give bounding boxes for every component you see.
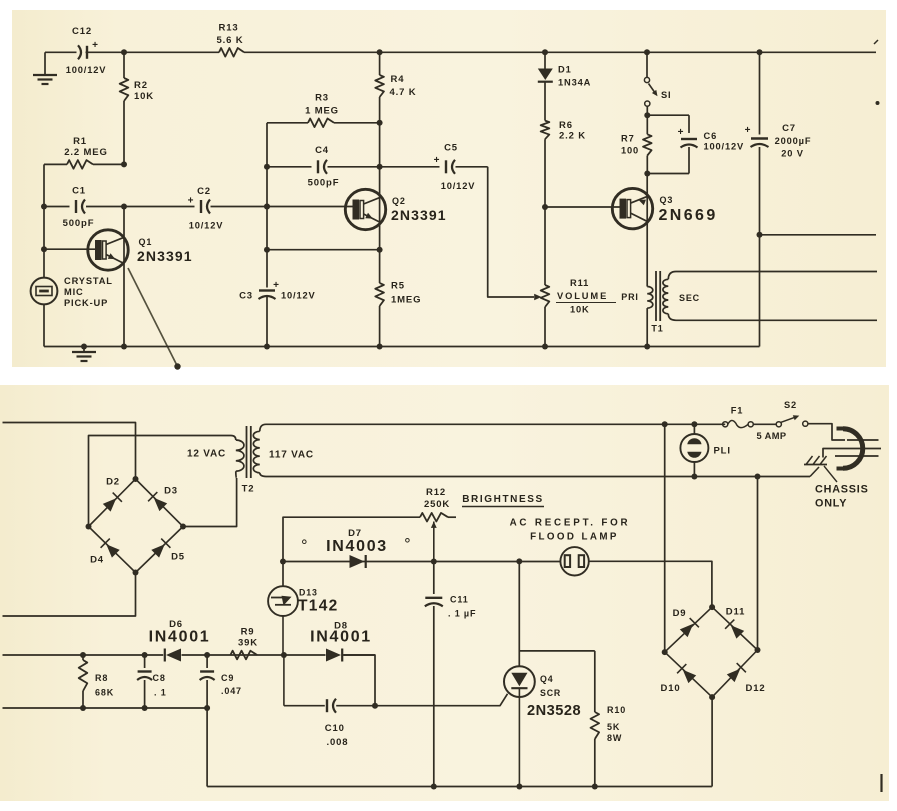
svg-text:+: + <box>188 196 195 207</box>
svg-text:SI: SI <box>661 90 671 100</box>
svg-text:C10: C10 <box>325 723 345 734</box>
plug blade top <box>847 439 879 441</box>
node R2 top <box>121 49 127 55</box>
transistor Q2 <box>345 189 446 229</box>
capacitor C6 <box>644 127 744 177</box>
node R12 wiper row <box>431 559 437 565</box>
svg-text:10/12V: 10/12V <box>281 291 316 301</box>
node R9 right junction <box>281 652 287 658</box>
trigger diode D13 <box>268 562 338 656</box>
svg-text:Q2: Q2 <box>392 196 406 206</box>
svg-text:D10: D10 <box>661 683 681 694</box>
node R3 right <box>377 120 383 126</box>
transformer T1 core <box>656 271 660 321</box>
svg-text:R9: R9 <box>241 627 255 638</box>
svg-text:5K: 5K <box>607 722 620 732</box>
wire main row <box>3 654 376 656</box>
wire 117VAC return rail <box>266 476 810 478</box>
svg-text:500pF: 500pF <box>63 218 95 229</box>
node C4 left <box>264 164 270 170</box>
svg-text:ONLY: ONLY <box>815 498 847 510</box>
transistor Q1 <box>88 230 193 270</box>
svg-text:2N669: 2N669 <box>659 207 718 224</box>
svg-text:R1: R1 <box>73 136 87 147</box>
svg-text:C2: C2 <box>197 186 211 197</box>
svg-text:T142: T142 <box>298 598 339 615</box>
svg-text:C3: C3 <box>239 291 253 302</box>
capacitor C11 <box>425 562 476 790</box>
resistor R3 <box>267 93 380 128</box>
svg-text:D13: D13 <box>299 588 318 598</box>
capacitor C2 <box>124 186 267 231</box>
svg-text:500pF: 500pF <box>308 178 340 189</box>
wire S1 to R7/C6 <box>644 106 689 133</box>
svg-text:VOLUME: VOLUME <box>557 291 608 301</box>
plug blade bottom <box>835 455 879 457</box>
capacitor C5 <box>380 143 488 192</box>
transformer T1 primary <box>621 287 653 347</box>
svg-text:C11: C11 <box>450 595 469 605</box>
bridge D2-D5 frame <box>89 479 184 573</box>
neon lamp PL1 <box>680 421 730 479</box>
svg-text:R5: R5 <box>391 281 405 292</box>
node Q2 base wire left <box>264 204 270 210</box>
transformer T2 secondary <box>242 424 314 494</box>
wire left column lower <box>43 304 45 347</box>
svg-text:FLOOD LAMP: FLOOD LAMP <box>530 532 619 543</box>
wire phase-shift row <box>283 561 561 563</box>
node bridge2 right top <box>755 474 761 480</box>
svg-text:R10: R10 <box>607 705 626 715</box>
potentiometer R11 VOLUME <box>541 207 616 347</box>
node bridge2 top <box>709 604 715 610</box>
svg-text:10/12V: 10/12V <box>441 181 476 191</box>
svg-text:R2: R2 <box>134 80 148 91</box>
svg-text:S2: S2 <box>784 400 797 410</box>
svg-text:IN4001: IN4001 <box>149 629 211 646</box>
wire bridge2 right column <box>757 477 759 651</box>
scan speck slash <box>874 40 878 44</box>
chassis ground <box>804 456 869 510</box>
diode D8 <box>310 621 372 662</box>
wire bridge1 plus rail <box>3 423 136 480</box>
diode D4 <box>90 539 120 566</box>
svg-text:C6: C6 <box>704 131 718 141</box>
svg-text:.047: .047 <box>221 686 242 696</box>
svg-text:1N34A: 1N34A <box>558 78 591 88</box>
svg-text:CRYSTAL: CRYSTAL <box>64 276 113 286</box>
svg-text:C1: C1 <box>72 186 86 197</box>
svg-text:4.7 K: 4.7 K <box>390 87 417 98</box>
pointer line from Q1 <box>128 268 181 370</box>
transistor Q3 <box>612 173 717 229</box>
speck near D7 left <box>303 540 307 544</box>
svg-text:SEC: SEC <box>679 293 700 303</box>
svg-text:C5: C5 <box>444 143 458 154</box>
wire R3 to C4 column <box>266 123 268 250</box>
svg-text:F1: F1 <box>731 406 744 416</box>
capacitor C7 <box>745 49 812 346</box>
paper background top section <box>12 10 886 367</box>
wire left input column <box>43 164 45 278</box>
svg-text:+: + <box>273 280 280 291</box>
diode D7 <box>326 528 388 568</box>
wire R12 feed <box>283 517 420 561</box>
node C1 left <box>41 204 47 210</box>
wire bridge1 minus rail <box>3 573 136 617</box>
node bridge1 right <box>180 524 186 530</box>
svg-text:. 1 µF: . 1 µF <box>448 609 476 619</box>
wire Q3 to T1 <box>646 224 648 287</box>
diode D11 <box>725 607 745 639</box>
node R5 bottom <box>377 344 383 350</box>
wire Q1 collector-emitter column <box>123 207 125 347</box>
svg-text:R8: R8 <box>95 673 108 683</box>
svg-text:R13: R13 <box>219 23 239 34</box>
svg-text:T2: T2 <box>242 484 255 495</box>
transformer T2 core <box>247 426 251 478</box>
node bridge1 left <box>86 524 92 530</box>
svg-text:2N3391: 2N3391 <box>137 248 193 264</box>
node emitter return right <box>377 247 383 253</box>
wire F1 to S2 <box>753 423 776 425</box>
svg-text:D12: D12 <box>746 683 766 694</box>
ground at bottom rail <box>72 344 96 362</box>
resistor R1 <box>44 136 124 169</box>
node bridge2 left <box>662 649 668 655</box>
wire Q3 base <box>545 206 620 208</box>
node C3 bottom <box>264 344 270 350</box>
svg-text:5.6 K: 5.6 K <box>217 35 244 46</box>
transformer T1 secondary <box>651 272 700 334</box>
wire bottom rail 2 <box>207 786 711 788</box>
svg-text:12 VAC: 12 VAC <box>187 449 226 460</box>
svg-text:Q4: Q4 <box>540 674 553 684</box>
node R10 bottom <box>592 784 598 790</box>
diode D10 <box>661 664 697 694</box>
diode D9 <box>673 608 699 637</box>
svg-text:D9: D9 <box>673 608 687 619</box>
wire Q2 column <box>379 123 381 283</box>
svg-text:R3: R3 <box>315 93 329 104</box>
svg-text:5 AMP: 5 AMP <box>756 431 786 441</box>
resistor R13 <box>217 23 244 57</box>
wire SEC bottom out <box>676 319 877 321</box>
ground at C12 <box>33 52 57 84</box>
node Q4 anode tap <box>516 558 522 564</box>
wire C5 to volume wiper <box>488 167 542 300</box>
resistor R6 <box>541 120 586 207</box>
resistor R8 <box>79 652 114 711</box>
scan artifact bar <box>880 774 882 792</box>
node row left <box>280 559 286 565</box>
node T1 primary bottom <box>644 344 650 350</box>
svg-text:PICK-UP: PICK-UP <box>64 298 108 308</box>
svg-text:C9: C9 <box>221 673 234 683</box>
capacitor C3 <box>239 250 316 347</box>
bridge D9-D12 frame <box>665 607 758 697</box>
wire Q2 base <box>267 206 353 208</box>
wire bridge2 left column <box>664 424 666 652</box>
diode D2 <box>103 477 122 512</box>
node Q1 base wire <box>41 246 47 252</box>
node bridge2 right <box>755 647 761 653</box>
wire S2 to plug <box>808 424 845 440</box>
svg-text:100/12V: 100/12V <box>704 142 745 152</box>
svg-text:8W: 8W <box>607 733 622 743</box>
svg-text:C4: C4 <box>315 145 329 156</box>
node Q4 cathode bottom <box>516 784 522 790</box>
diode D5 <box>151 539 185 563</box>
svg-text:10K: 10K <box>570 305 590 315</box>
capacitor C12 <box>66 26 107 75</box>
svg-text:SCR: SCR <box>540 688 561 698</box>
wire bridge2 bottom column <box>710 697 713 786</box>
resistor R9 <box>230 627 258 660</box>
svg-text:39K: 39K <box>238 638 258 649</box>
svg-text:C8: C8 <box>153 673 166 683</box>
svg-text:D3: D3 <box>164 486 178 497</box>
svg-text:C7: C7 <box>782 123 796 134</box>
wire bottom rail <box>44 346 760 348</box>
wire SCR gate <box>375 694 508 706</box>
svg-text:R6: R6 <box>559 120 573 131</box>
resistor R5 <box>375 281 421 347</box>
potentiometer R12 <box>420 487 456 562</box>
svg-text:R4: R4 <box>391 74 405 85</box>
wire D8 out <box>343 655 376 706</box>
diode D12 <box>727 663 766 694</box>
SCR Q4 <box>504 666 581 786</box>
fuse F1 <box>723 406 787 442</box>
wire Q1 base <box>44 248 95 250</box>
node bridge1 top <box>133 476 139 482</box>
node D8 row to C10 <box>372 703 378 709</box>
paper background bottom section <box>0 385 889 801</box>
svg-text:CHASSIS: CHASSIS <box>815 484 869 496</box>
svg-text:68K: 68K <box>95 688 114 698</box>
switch S1 <box>644 49 671 106</box>
wire bridge1 right node to T2 <box>183 478 237 527</box>
wire C7 tap out <box>760 234 877 236</box>
switch S2 <box>776 400 808 427</box>
node D1 top <box>542 49 548 55</box>
svg-text:.008: .008 <box>327 737 349 748</box>
capacitor C10 <box>325 699 349 748</box>
svg-text:D5: D5 <box>171 552 185 563</box>
node bridge2 bottom <box>709 694 715 700</box>
svg-text:+: + <box>678 127 685 138</box>
resistor R2 <box>120 52 154 164</box>
node emitter return left <box>264 247 270 253</box>
AC receptacle <box>510 518 631 576</box>
wire receptacle to bridge2 top <box>589 561 712 607</box>
node C7 tap <box>757 232 763 238</box>
svg-text:2000µF: 2000µF <box>775 136 812 146</box>
node C4 right <box>377 164 383 170</box>
node R11 bottom <box>542 344 548 350</box>
svg-text:MIC: MIC <box>64 287 84 297</box>
svg-text:AC RECEPT. FOR: AC RECEPT. FOR <box>510 518 631 529</box>
svg-text:PRI: PRI <box>621 292 639 302</box>
wire Q4 anode <box>518 561 520 666</box>
svg-text:IN4001: IN4001 <box>310 629 372 646</box>
wire bridge1 left node to T2 <box>89 436 232 527</box>
wire Q4 loop to R10 <box>519 650 595 652</box>
AC plug body <box>837 429 863 469</box>
svg-text:D1: D1 <box>558 65 572 75</box>
svg-text:20 V: 20 V <box>781 149 804 159</box>
svg-text:2N3528: 2N3528 <box>527 703 581 719</box>
svg-text:10/12V: 10/12V <box>189 221 224 231</box>
wire Q2 emitter return <box>267 249 380 251</box>
node C2 right <box>264 204 270 210</box>
svg-text:2.2 MEG: 2.2 MEG <box>64 147 107 158</box>
label BRIGHTNESS <box>462 494 544 507</box>
diode D1 <box>538 52 591 120</box>
capacitor C9 <box>200 655 242 711</box>
svg-text:250K: 250K <box>424 499 450 510</box>
svg-text:+: + <box>745 125 752 136</box>
svg-text:D4: D4 <box>90 555 104 566</box>
crystal mic pick-up <box>31 276 113 308</box>
speck near D7 right <box>406 539 410 543</box>
node bridge1 bottom <box>133 570 139 576</box>
svg-text:Q3: Q3 <box>660 195 674 205</box>
transformer T2 primary <box>187 436 244 479</box>
resistor R10 <box>591 651 627 787</box>
scan speck dot <box>876 101 880 105</box>
wire lower-left row <box>3 707 208 709</box>
svg-text:1 MEG: 1 MEG <box>305 106 339 117</box>
wire 117VAC hot rail <box>266 423 725 425</box>
capacitor C1 <box>44 186 124 230</box>
svg-text:Q1: Q1 <box>139 237 153 247</box>
svg-text:117 VAC: 117 VAC <box>269 450 314 461</box>
wire C10 row <box>284 655 375 706</box>
svg-text:R11: R11 <box>570 278 589 288</box>
node R4 top <box>377 49 383 55</box>
node C1 right <box>121 204 127 210</box>
svg-text:D2: D2 <box>106 477 120 488</box>
capacitor C4 <box>267 145 380 189</box>
svg-text:BRIGHTNESS: BRIGHTNESS <box>462 494 544 505</box>
svg-text:T1: T1 <box>651 324 663 334</box>
capacitor C8 <box>137 652 166 711</box>
svg-text:100: 100 <box>621 146 639 156</box>
wire top supply rail <box>45 51 876 53</box>
svg-text:R7: R7 <box>621 134 635 144</box>
wire C9 column to bottom rail <box>206 708 208 787</box>
node Q1 emitter bottom <box>121 344 127 350</box>
diode D6 <box>149 619 211 662</box>
svg-text:100/12V: 100/12V <box>66 65 107 75</box>
svg-text:D11: D11 <box>726 607 745 618</box>
plug blade middle <box>823 449 881 458</box>
node D6/C9 junction <box>204 652 210 658</box>
svg-text:C12: C12 <box>72 26 92 37</box>
svg-text:IN4003: IN4003 <box>326 538 388 555</box>
node R1/R2 <box>121 161 127 167</box>
svg-text:+: + <box>92 40 99 51</box>
wire SEC top out <box>676 271 877 273</box>
svg-text:1MEG: 1MEG <box>391 295 421 306</box>
resistor R7 <box>621 115 652 173</box>
svg-text:10K: 10K <box>134 91 154 102</box>
svg-text:R12: R12 <box>426 487 446 498</box>
node Q3 base junction <box>542 204 548 210</box>
svg-text:PLI: PLI <box>714 446 731 457</box>
node bridge2 left top <box>662 421 668 427</box>
svg-text:2N3391: 2N3391 <box>391 207 447 223</box>
svg-text:. 1: . 1 <box>154 688 167 698</box>
svg-text:+: + <box>434 155 441 166</box>
resistor R4 <box>375 52 416 123</box>
svg-text:2.2 K: 2.2 K <box>559 131 586 142</box>
diode D3 <box>148 486 178 512</box>
